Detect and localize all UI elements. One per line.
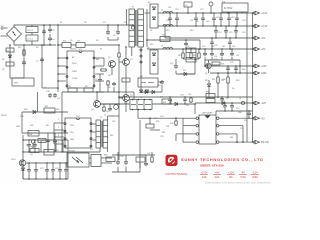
svg-text:L2: L2: [161, 10, 163, 12]
svg-text:C6: C6: [113, 35, 115, 37]
svg-text:D6: D6: [232, 88, 234, 90]
svg-text:C40: C40: [202, 46, 205, 48]
svg-text:D4: D4: [183, 70, 185, 72]
svg-text:C12: C12: [200, 9, 203, 11]
svg-text:IC3: IC3: [160, 97, 163, 99]
svg-text:C34: C34: [160, 116, 163, 118]
svg-text:PSON: PSON: [1, 115, 7, 117]
svg-text:R49: R49: [230, 137, 233, 139]
svg-text:Q4: Q4: [91, 109, 94, 111]
svg-text:C46: C46: [112, 121, 115, 123]
svg-text:22A: 22A: [215, 175, 220, 179]
svg-text:C44: C44: [168, 7, 171, 9]
svg-text:R7: R7: [69, 86, 71, 88]
svg-text:+5V: +5V: [261, 48, 266, 51]
svg-text:C25: C25: [40, 168, 43, 170]
svg-text:0.8A: 0.8A: [252, 175, 258, 179]
svg-text:C22: C22: [230, 62, 233, 64]
svg-text:+3.3V: +3.3V: [261, 12, 268, 15]
svg-text:D2: D2: [150, 30, 152, 32]
svg-text:R25: R25: [55, 150, 58, 152]
svg-text:R30: R30: [206, 92, 209, 94]
svg-text:C26: C26: [55, 168, 58, 170]
svg-text:R20: R20: [214, 59, 217, 61]
svg-text:R35: R35: [156, 121, 159, 123]
svg-text:C16: C16: [214, 56, 217, 58]
svg-text:R14: R14: [162, 35, 165, 37]
svg-text:R46: R46: [162, 132, 165, 134]
svg-text:D2: D2: [2, 69, 4, 71]
svg-text:C52: C52: [236, 55, 239, 57]
svg-text:KA7500: KA7500: [70, 48, 76, 51]
svg-text:C7: C7: [44, 87, 46, 89]
svg-text:C14: C14: [218, 32, 221, 34]
svg-text:R38: R38: [238, 112, 241, 114]
svg-text:C1 0.1: C1 0.1: [27, 30, 34, 32]
svg-text:R5: R5: [2, 59, 4, 61]
svg-text:115V: 115V: [11, 159, 16, 161]
svg-text:C18: C18: [157, 85, 160, 87]
svg-text:R15: R15: [178, 55, 181, 57]
svg-text:D1: D1: [148, 2, 150, 4]
svg-text:R43: R43: [110, 135, 113, 137]
svg-text:T2: T2: [104, 115, 106, 117]
svg-text:-12V: -12V: [252, 170, 258, 174]
svg-text:IC6: IC6: [90, 149, 93, 151]
svg-text:IC5: IC5: [222, 2, 225, 4]
svg-text:+12V: +12V: [228, 170, 235, 174]
svg-text:PC817: PC817: [69, 151, 76, 153]
svg-text:14A: 14A: [202, 175, 207, 179]
svg-text:R56: R56: [63, 41, 66, 43]
svg-text:R50: R50: [104, 155, 107, 157]
svg-text:+12V: +12V: [261, 65, 267, 68]
svg-text:C39: C39: [236, 108, 239, 110]
svg-text:C37: C37: [57, 98, 60, 100]
svg-text:R12: R12: [166, 30, 169, 32]
svg-text:C2 0.1: C2 0.1: [27, 39, 34, 41]
svg-text:L5: L5: [187, 46, 189, 48]
svg-text:C33: C33: [180, 95, 183, 97]
svg-text:L4: L4: [161, 46, 163, 48]
svg-text:C27: C27: [221, 80, 224, 82]
svg-text:C19: C19: [106, 111, 109, 113]
svg-text:C48: C48: [30, 125, 33, 127]
svg-text:PS-ON: PS-ON: [261, 141, 269, 144]
svg-text:C24: C24: [242, 32, 245, 34]
svg-text:R42: R42: [124, 103, 127, 105]
svg-text:MODEL ATX-230: MODEL ATX-230: [200, 163, 224, 167]
svg-text:L6: L6: [239, 98, 241, 100]
svg-text:AZ7500BP: AZ7500BP: [202, 112, 213, 115]
svg-text:SW: SW: [29, 134, 32, 136]
svg-text:OUTPUT(MAX):: OUTPUT(MAX):: [166, 172, 188, 176]
svg-text:+3.3V: +3.3V: [261, 25, 268, 28]
svg-text:C49: C49: [154, 118, 157, 120]
svg-text:R1: R1: [60, 22, 62, 24]
svg-text:R9: R9: [108, 87, 110, 89]
svg-text:R11: R11: [45, 106, 48, 108]
svg-text:C42: C42: [222, 46, 225, 48]
svg-text:-5V: -5V: [241, 170, 245, 174]
svg-text:D5: D5: [226, 98, 228, 100]
svg-text:1: 1: [58, 119, 59, 121]
svg-text:AC: AC: [1, 25, 4, 28]
svg-text:C45: C45: [206, 21, 209, 23]
svg-text:C32: C32: [147, 153, 150, 155]
svg-text:C9: C9: [95, 79, 97, 81]
svg-text:Q6: Q6: [205, 73, 207, 75]
svg-text:C12: C12: [216, 17, 219, 19]
svg-text:D10: D10: [56, 109, 59, 111]
svg-text:COMP: COMP: [72, 78, 78, 80]
svg-text:C43: C43: [232, 46, 235, 48]
svg-text:R4: R4: [100, 49, 102, 51]
svg-text:PFC: PFC: [14, 83, 19, 85]
svg-text:C6: C6: [70, 40, 72, 42]
svg-text:R19: R19: [150, 44, 153, 46]
svg-text:C23: C23: [77, 41, 80, 43]
svg-text:R17: R17: [196, 21, 199, 23]
svg-text:+5V: +5V: [215, 170, 220, 174]
svg-text:C17: C17: [170, 63, 173, 65]
svg-text:C15: C15: [229, 32, 232, 34]
svg-text:IC 7812: IC 7812: [224, 7, 233, 10]
svg-text:SUNNY TECHNOLOGIES CO., LTD: SUNNY TECHNOLOGIES CO., LTD: [181, 157, 264, 162]
svg-text:C36: C36: [46, 91, 49, 93]
svg-text:0.5A: 0.5A: [240, 175, 246, 179]
svg-text:Q5: Q5: [108, 57, 111, 59]
svg-text:R48: R48: [242, 69, 245, 71]
svg-text:C11: C11: [190, 20, 193, 22]
svg-text:NTC: NTC: [18, 47, 23, 49]
svg-text:3: 3: [58, 135, 59, 137]
svg-text:8A: 8A: [229, 175, 232, 179]
svg-text:+5V: +5V: [261, 37, 266, 40]
svg-text:C51: C51: [220, 55, 223, 57]
svg-text:R51: R51: [244, 120, 247, 122]
svg-text:C23: C23: [242, 20, 245, 22]
svg-text:GND: GND: [261, 72, 267, 75]
svg-text:-5V: -5V: [261, 117, 265, 120]
svg-text:R41: R41: [166, 126, 169, 128]
svg-text:-12V: -12V: [261, 102, 266, 105]
svg-text:R26: R26: [236, 80, 239, 82]
svg-text:GND: GND: [70, 139, 75, 141]
svg-text:C10: C10: [166, 20, 169, 22]
svg-text:R45: R45: [46, 125, 49, 127]
svg-text:Q3: Q3: [30, 154, 33, 156]
svg-text:C8: C8: [84, 22, 86, 24]
svg-text:C10: C10: [175, 9, 178, 11]
svg-text:C35: C35: [160, 136, 163, 138]
svg-text:C30: C30: [120, 156, 123, 158]
svg-text:R22: R22: [205, 80, 208, 82]
svg-text:Downloaded from www.eservicei: Downloaded from www.eserviceinfo.com dat…: [205, 181, 271, 185]
svg-text:R33: R33: [170, 123, 173, 125]
svg-text:C13: C13: [231, 17, 234, 19]
svg-text:C47: C47: [108, 75, 111, 77]
svg-text:R13: R13: [190, 30, 193, 32]
svg-text:R21: R21: [221, 64, 224, 66]
svg-text:C53: C53: [240, 128, 243, 130]
svg-text:+3.3V: +3.3V: [200, 170, 207, 174]
svg-text:R47: R47: [186, 105, 189, 107]
svg-text:R8: R8: [85, 86, 87, 88]
svg-text:R44: R44: [96, 59, 99, 61]
svg-text:C20: C20: [214, 45, 217, 47]
svg-text:C50: C50: [188, 94, 191, 96]
svg-text:R27: R27: [212, 79, 215, 81]
svg-text:D5: D5: [222, 100, 224, 102]
svg-text:R3: R3: [96, 40, 98, 42]
svg-text:C7: C7: [36, 61, 38, 63]
svg-text:4: 4: [58, 142, 59, 144]
svg-text:2: 2: [58, 127, 59, 129]
svg-text:R40: R40: [24, 109, 27, 111]
